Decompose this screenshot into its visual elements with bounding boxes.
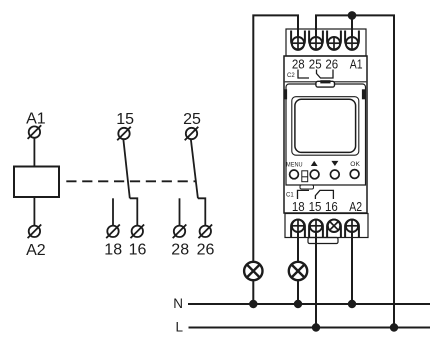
svg-text:25: 25 — [309, 56, 322, 71]
svg-text:A1: A1 — [26, 110, 46, 127]
svg-text:16: 16 — [325, 199, 338, 214]
svg-text:18: 18 — [292, 199, 305, 214]
svg-text:OK: OK — [350, 161, 360, 168]
svg-text:MENU: MENU — [286, 162, 303, 168]
svg-text:26: 26 — [325, 56, 338, 71]
svg-text:15: 15 — [116, 111, 134, 128]
svg-text:A1: A1 — [350, 56, 363, 71]
svg-text:A2: A2 — [26, 242, 46, 259]
svg-text:28: 28 — [171, 242, 189, 259]
svg-text:16: 16 — [129, 242, 147, 259]
svg-text:18: 18 — [104, 242, 122, 259]
svg-text:25: 25 — [183, 111, 201, 128]
svg-text:C2: C2 — [287, 73, 295, 79]
svg-text:28: 28 — [292, 56, 305, 71]
svg-text:N: N — [173, 296, 183, 311]
svg-text:C1: C1 — [286, 193, 294, 199]
svg-text:A2: A2 — [349, 199, 362, 214]
svg-text:15: 15 — [309, 199, 322, 214]
svg-text:26: 26 — [197, 242, 215, 259]
svg-text:L: L — [175, 320, 183, 335]
